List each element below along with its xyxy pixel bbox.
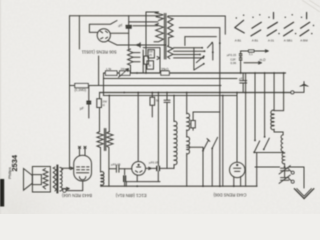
svg-text:A BM: A BM — [300, 39, 308, 43]
svg-text:0,06: 0,06 — [230, 61, 236, 65]
svg-text:5k: 5k — [156, 98, 160, 102]
svg-text:A 01: A 01 — [268, 39, 274, 43]
svg-text:2W: 2W — [121, 67, 126, 71]
svg-text:µF0,05: µF0,05 — [149, 160, 159, 164]
svg-text:µF: µF — [118, 23, 122, 27]
svg-text:µF: µF — [80, 107, 84, 111]
svg-text:E1C1 (d8N 81A): E1C1 (d8N 81A) — [115, 193, 146, 198]
svg-text:2534: 2534 — [10, 154, 19, 171]
svg-text:3,1: 3,1 — [249, 52, 253, 56]
svg-text:m.Ω: m.Ω — [260, 58, 267, 62]
svg-text:1,5k: 1,5k — [106, 67, 112, 71]
svg-text:506 REN5 (10511: 506 REN5 (10511 — [81, 49, 116, 54]
svg-text:µF0,05: µF0,05 — [111, 163, 121, 167]
svg-text:A B1: A B1 — [235, 39, 242, 43]
svg-text:A SB1: A SB1 — [284, 39, 293, 43]
svg-text:µF: µF — [239, 76, 243, 80]
svg-text:35: 35 — [149, 53, 153, 57]
svg-text:(0,1MΩ): (0,1MΩ) — [75, 88, 87, 92]
svg-text:35kΩ: 35kΩ — [161, 67, 169, 71]
svg-text:A B1: A B1 — [252, 39, 259, 43]
svg-text:C443 RENS D06): C443 RENS D06) — [213, 192, 247, 197]
svg-text:30: 30 — [148, 63, 152, 67]
svg-text:B443 REN U04): B443 REN U04) — [61, 193, 92, 198]
